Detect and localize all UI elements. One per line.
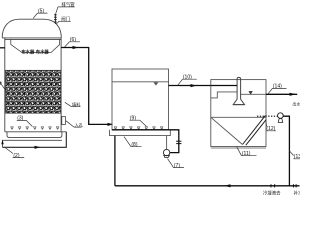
svg-text:入孔: 入孔 bbox=[75, 121, 84, 128]
svg-text:(11): (11) bbox=[242, 151, 251, 157]
svg-text:(2): (2) bbox=[13, 153, 19, 159]
svg-text:(8): (8) bbox=[131, 142, 137, 148]
svg-text:补水: 补水 bbox=[294, 190, 300, 197]
svg-text:(6): (6) bbox=[70, 37, 76, 43]
svg-text:出水: 出水 bbox=[292, 100, 300, 106]
svg-text:(12): (12) bbox=[266, 126, 275, 132]
svg-text:(14): (14) bbox=[273, 84, 282, 90]
svg-text:(13): (13) bbox=[294, 154, 300, 160]
svg-text:布水器: 布水器 bbox=[36, 49, 50, 56]
svg-text:填料: 填料 bbox=[72, 101, 81, 108]
svg-text:(10): (10) bbox=[183, 75, 192, 81]
svg-text:排气管: 排气管 bbox=[62, 1, 76, 8]
svg-text:阀门: 阀门 bbox=[61, 15, 70, 22]
svg-text:布水器: 布水器 bbox=[21, 49, 35, 56]
svg-text:(9): (9) bbox=[130, 116, 136, 122]
svg-text:(3): (3) bbox=[17, 116, 23, 122]
svg-text:(7): (7) bbox=[174, 163, 180, 169]
svg-text:(5): (5) bbox=[38, 8, 44, 14]
svg-text:冷凝液去: 冷凝液去 bbox=[263, 190, 281, 197]
